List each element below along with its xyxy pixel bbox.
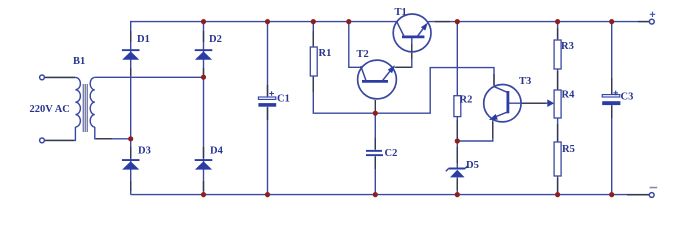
wire R5 lower lead: [557, 178, 559, 192]
svg-text:B1: B1: [73, 56, 85, 67]
transistor T3: [484, 85, 521, 122]
wire R2 lower lead: [456, 120, 458, 138]
wire top rail left segment (bridge + to T1 collector): [131, 22, 397, 195]
resistor R1: [310, 47, 317, 76]
svg-text:R1: R1: [319, 48, 332, 59]
svg-text:D2: D2: [209, 34, 222, 45]
wire D1 lower lead: [130, 68, 132, 76]
wire transformer primary loop with terminals: [45, 76, 76, 78]
transformer B1 primary winding: [75, 77, 80, 127]
wire secondary top to bridge right column (AC2), crosses left column: [95, 76, 204, 78]
wire D2 lead: [203, 31, 205, 42]
wire C1 leads: [267, 85, 269, 120]
svg-text:D3: D3: [138, 146, 151, 157]
wire D2 lower lead: [203, 68, 205, 76]
output minus sign: [650, 187, 658, 189]
wire D5 leads: [456, 147, 458, 190]
dark component lead stubs overlay: [45, 22, 649, 195]
resistor R4 potentiometer body: [554, 90, 561, 118]
wire input bottom lead: [45, 139, 74, 141]
wire secondary bottom to bridge left column (AC1): [95, 127, 131, 139]
wire R2 column: [456, 22, 458, 195]
transformer B1 core: [83, 84, 87, 132]
svg-text:D1: D1: [137, 34, 150, 45]
resistor R2: [454, 96, 461, 117]
diode D4: [195, 159, 213, 170]
svg-text:T3: T3: [519, 76, 531, 87]
diode D2: [195, 49, 213, 60]
wire plus terminal lead: [638, 21, 649, 23]
svg-text:R2: R2: [460, 95, 473, 106]
zener diode D5: [446, 166, 468, 178]
output plus sign: [650, 12, 655, 17]
svg-text:C1: C1: [277, 94, 290, 105]
wire minus terminal lead: [627, 194, 649, 196]
wire bridge right column: [203, 22, 205, 195]
capacitor C2: [366, 150, 383, 156]
wire T2 base lead: [374, 100, 376, 112]
diode D1: [122, 49, 140, 60]
wire D3 lead: [130, 147, 132, 158]
wire R1 leads: [312, 31, 314, 92]
wire T3 emitter to zener node: [457, 120, 493, 141]
wire rail dark dash: [435, 21, 450, 23]
capacitor C3 electrolytic: [602, 91, 620, 106]
svg-text:D4: D4: [210, 146, 224, 157]
svg-text:C3: C3: [621, 92, 634, 103]
wire T3 base to R4 wiper: [509, 102, 548, 104]
wire divider column R3 R4 R5: [557, 22, 559, 195]
wire bottom rail: [131, 194, 650, 196]
wire R4-R5 lead: [557, 124, 559, 141]
resistor R3: [554, 40, 561, 69]
wire T2 collector riser: [349, 22, 361, 68]
input terminal top: [40, 75, 45, 80]
svg-text:R4: R4: [562, 90, 576, 101]
wire D3 lower lead: [130, 181, 132, 191]
wire C3 leads: [611, 78, 613, 118]
diode D3: [122, 159, 140, 170]
wire R3-R4 lead: [557, 71, 559, 89]
wire D1 lead: [130, 31, 132, 42]
input terminal bottom: [40, 138, 45, 143]
transistor T1: [393, 14, 431, 52]
wire top rail right segment (T1 emitter to + terminal): [428, 21, 649, 23]
resistor R5: [554, 142, 561, 176]
output terminal plus: [649, 19, 654, 24]
svg-text:T1: T1: [395, 7, 407, 18]
svg-text:T2: T2: [357, 49, 369, 60]
svg-text:C2: C2: [385, 148, 398, 159]
wire secondary bottom lead: [96, 138, 112, 140]
output terminal minus: [649, 193, 654, 198]
svg-text:D5: D5: [466, 160, 479, 171]
wire T3 collector lead: [493, 74, 495, 85]
wire T2 base down to node A and C2: [374, 113, 376, 194]
wire C1 column: [267, 22, 269, 195]
wire R1 bottom to node A horizontal, up to T3 collector: [313, 68, 494, 114]
wire C2 leads: [374, 138, 376, 169]
wire C3 column: [611, 22, 613, 195]
transformer B1 secondary winding: [90, 77, 95, 127]
wire T1 base lead: [411, 44, 413, 59]
svg-text:220V AC: 220V AC: [30, 104, 70, 115]
wire T2 emitter to T1 base: [395, 38, 412, 68]
capacitor C1 electrolytic: [258, 91, 276, 107]
wire R1 column top: [312, 22, 314, 47]
wire T3 emitter lead: [492, 122, 494, 138]
wire T3 base lead: [522, 102, 546, 104]
svg-text:R5: R5: [562, 144, 575, 155]
wire D4 lower lead: [203, 181, 205, 191]
wire T2 emitter link lead: [396, 66, 411, 68]
transistor T2: [358, 60, 397, 99]
wire D4 lead: [203, 147, 205, 158]
wire input top lead: [45, 76, 75, 78]
svg-text:R3: R3: [561, 41, 574, 52]
potentiometer R4 wiper arrow: [547, 99, 554, 107]
wire R3 upper lead: [557, 28, 559, 39]
